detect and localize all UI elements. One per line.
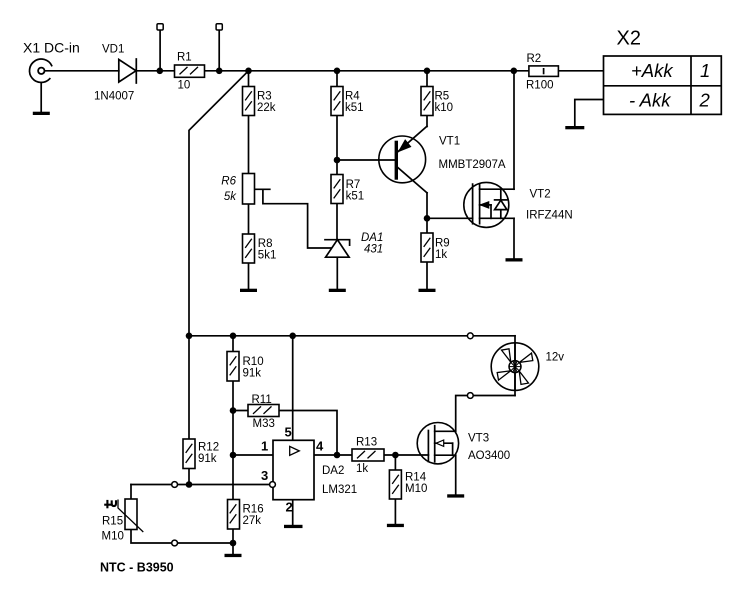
svg-text:AO3400: AO3400 (468, 450, 510, 462)
svg-text:R14: R14 (405, 472, 427, 484)
svg-text:R13: R13 (356, 437, 377, 449)
svg-text:X1 DC-in: X1 DC-in (23, 40, 80, 56)
svg-text:LM321: LM321 (322, 484, 357, 496)
svg-text:VT1: VT1 (439, 136, 460, 148)
svg-text:27k: 27k (243, 515, 262, 527)
svg-text:k51: k51 (346, 191, 365, 203)
svg-text:1N4007: 1N4007 (94, 91, 134, 103)
svg-text:R9: R9 (435, 238, 450, 250)
svg-text:M10: M10 (102, 531, 124, 543)
svg-text:R1: R1 (177, 52, 192, 64)
svg-text:1: 1 (700, 60, 710, 81)
svg-text:R10: R10 (243, 356, 264, 368)
svg-text:4: 4 (316, 439, 324, 454)
svg-text:k51: k51 (345, 102, 364, 114)
svg-text:NTC - B3950: NTC - B3950 (100, 561, 174, 575)
svg-text:VD1: VD1 (102, 44, 124, 56)
svg-text:R3: R3 (257, 91, 272, 103)
svg-text:22k: 22k (257, 102, 276, 114)
svg-text:R8: R8 (258, 238, 273, 250)
svg-text:5k: 5k (224, 191, 237, 203)
svg-text:X2: X2 (617, 28, 641, 50)
svg-text:12v: 12v (546, 352, 565, 364)
svg-text:10: 10 (178, 80, 191, 92)
svg-text:R100: R100 (526, 80, 554, 92)
svg-text:IRFZ44N: IRFZ44N (526, 210, 573, 222)
svg-text:1k: 1k (356, 463, 368, 475)
svg-text:R12: R12 (198, 442, 219, 454)
svg-text:+Akk: +Akk (631, 60, 674, 81)
svg-text:VT3: VT3 (468, 433, 489, 445)
svg-text:VT2: VT2 (530, 189, 551, 201)
svg-text:R2: R2 (527, 53, 542, 65)
svg-text:2: 2 (286, 500, 293, 515)
svg-text:R16: R16 (243, 504, 264, 516)
svg-text:M10: M10 (405, 483, 427, 495)
svg-text:5k1: 5k1 (258, 250, 277, 262)
svg-text:M33: M33 (253, 418, 275, 430)
svg-text:R7: R7 (346, 179, 361, 191)
svg-text:R11: R11 (252, 394, 272, 406)
svg-text:- Akk: - Akk (629, 90, 672, 111)
svg-text:R5: R5 (435, 91, 450, 103)
svg-text:DA2: DA2 (322, 465, 344, 477)
svg-text:91k: 91k (243, 368, 262, 380)
svg-text:R6: R6 (221, 176, 236, 188)
svg-text:3: 3 (261, 468, 268, 483)
svg-text:R4: R4 (345, 91, 360, 103)
svg-text:R15: R15 (102, 516, 123, 528)
svg-text:2: 2 (699, 90, 711, 111)
svg-text:DA1: DA1 (361, 232, 383, 244)
svg-text:1: 1 (261, 439, 268, 454)
svg-text:91k: 91k (198, 453, 217, 465)
svg-text:5: 5 (285, 425, 292, 440)
svg-text:1k: 1k (435, 249, 447, 261)
svg-text:MMBT2907A: MMBT2907A (439, 159, 506, 171)
svg-text:431: 431 (364, 244, 383, 256)
svg-text:k10: k10 (435, 102, 454, 114)
